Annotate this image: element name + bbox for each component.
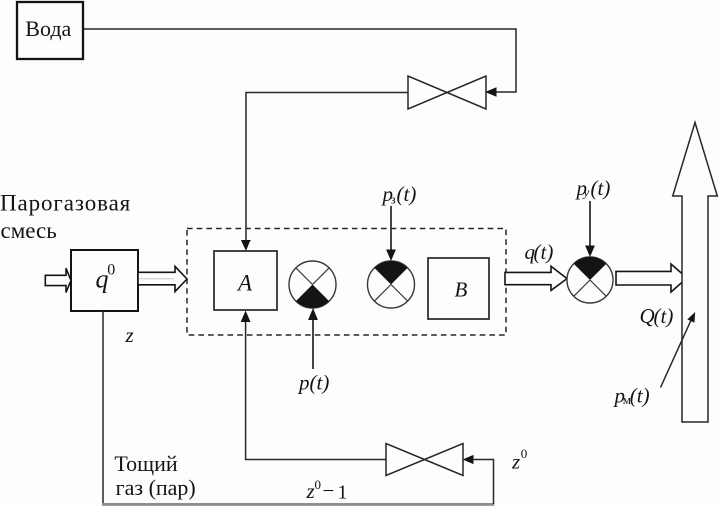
svg-text:0: 0 <box>521 446 528 461</box>
svg-text:z: z <box>511 450 520 474</box>
dashed boundary box <box>187 229 506 336</box>
svg-text:(t): (t) <box>591 176 611 200</box>
block A <box>214 251 277 310</box>
svg-text:1: 1 <box>338 482 348 504</box>
svg-text:Q: Q <box>640 304 655 328</box>
label p3(t) <box>381 182 417 207</box>
block q0 (input flow) <box>71 250 138 311</box>
arrowhead down into block A top <box>241 240 251 251</box>
svg-text:−: − <box>323 479 335 503</box>
svg-text:0: 0 <box>315 477 322 492</box>
svg-text:A: A <box>236 271 253 296</box>
arrowhead into bottom valve right side <box>463 455 474 464</box>
wire/arrow py(t) down into mixer M3 top <box>589 201 591 246</box>
svg-text:Парогазовая: Парогазовая <box>0 191 131 216</box>
label Парогазовая смесь <box>0 191 131 244</box>
wire up from gray line to bottom valve <box>472 460 494 505</box>
arrowhead up into block A bottom <box>241 311 251 323</box>
wire from Вода box right, down to top valve <box>84 29 516 92</box>
svg-text:газ (пар): газ (пар) <box>116 475 196 500</box>
outline arrow into q0 box left <box>45 268 71 292</box>
big output arrow (vertical, up) <box>673 123 718 423</box>
outline arrow q(t) from dashed box to mixer M3 <box>505 266 567 290</box>
outline arrow mixer M3 to big output arrow <box>616 264 687 292</box>
label Q(t) <box>640 304 674 328</box>
pointer line from pм(t) up to big arrow <box>661 319 692 388</box>
svg-text:z: z <box>125 323 134 347</box>
wire z from q0 box bottom down to gray line <box>102 311 104 504</box>
valve V1 (top control valve) <box>408 76 486 109</box>
wire from top valve left, down toward block A <box>246 93 408 241</box>
svg-text:(t): (t) <box>654 304 674 328</box>
label py(t) <box>575 176 611 200</box>
svg-text:p: p <box>297 371 310 395</box>
svg-text:z: z <box>306 479 315 503</box>
valve V2 (bottom control valve) <box>386 444 463 476</box>
mixer circle M3 (top sector filled) <box>567 257 613 303</box>
svg-text:(t): (t) <box>310 371 330 395</box>
svg-text:(t): (t) <box>630 384 650 408</box>
svg-text:з: з <box>391 192 396 207</box>
label p(t) <box>297 371 329 395</box>
label pм(t) <box>613 384 650 408</box>
wire/arrow p(t) up into mixer M1 bottom <box>312 318 314 369</box>
svg-text:Вода: Вода <box>25 16 71 41</box>
wire/arrow p3(t) down into mixer M2 top <box>390 206 392 250</box>
block B <box>428 258 489 319</box>
svg-text:(t): (t) <box>397 182 417 206</box>
mixer circle M1 (bottom sector filled) <box>289 261 336 308</box>
label Тощий газ (пар) <box>114 451 195 500</box>
gray bottom wire <box>102 503 494 506</box>
label q(t) <box>525 240 554 264</box>
svg-text:Тощий: Тощий <box>114 451 177 476</box>
arrowhead into top valve right side <box>485 87 497 97</box>
svg-text:смесь: смесь <box>1 218 57 243</box>
svg-text:B: B <box>455 278 468 302</box>
svg-text:0: 0 <box>107 262 115 279</box>
block Вода (water source) <box>17 2 83 59</box>
mixer circle M2 (top sector filled) <box>368 261 415 308</box>
label z0 (setpoint) <box>511 446 527 474</box>
svg-text:у: у <box>582 185 590 200</box>
label z0 - 1 <box>306 477 348 504</box>
svg-text:(t): (t) <box>534 240 554 264</box>
wire from bottom valve left up to block A bottom <box>246 322 386 460</box>
outline arrow q0 box to dashed box <box>138 266 187 291</box>
